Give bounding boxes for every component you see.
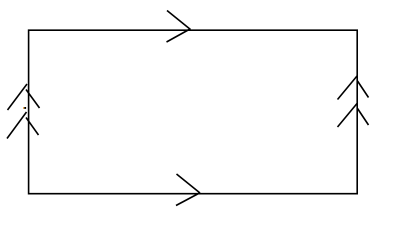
right side lower double-arrow chevron: [338, 104, 369, 128]
top side parallel arrow (single chevron): [167, 11, 191, 43]
small dot marker beside left side: [23, 107, 26, 109]
rectangle ABCD outline: [29, 30, 358, 194]
bottom side parallel arrow (single chevron): [176, 174, 200, 206]
right side upper double-arrow chevron: [338, 76, 369, 100]
left side lower double-arrow chevron: [7, 112, 39, 139]
left side upper double-arrow chevron: [8, 84, 40, 110]
